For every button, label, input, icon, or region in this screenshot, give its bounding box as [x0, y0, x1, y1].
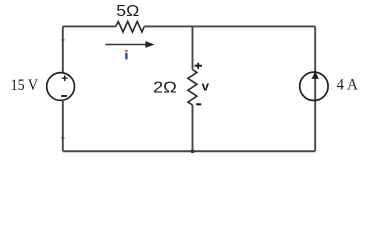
wire left vertical lower segment — [62, 100, 64, 151]
svg-text:v: v — [202, 78, 210, 93]
wire right vertical — [314, 26, 316, 151]
polarity plus of v — [195, 63, 202, 69]
polarity minus of v — [196, 103, 201, 105]
resistor R1 5ohm zigzag — [116, 22, 144, 33]
wire middle vertical lower segment — [192, 105, 194, 151]
junction dot bottom middle — [191, 149, 195, 153]
current arrow i — [105, 41, 154, 48]
svg-text:2Ω: 2Ω — [153, 80, 177, 97]
wire top-right horizontal segment — [144, 25, 315, 27]
wire left vertical upper segment — [62, 26, 64, 73]
wire top-left horizontal segment — [63, 25, 116, 27]
current source I1 — [300, 72, 328, 101]
junction tick upper left wire — [61, 39, 64, 41]
label i — [125, 50, 127, 59]
resistor R2 2ohm zigzag — [188, 70, 197, 106]
wire bottom horizontal — [63, 150, 315, 152]
junction tick lower left wire — [61, 137, 64, 139]
svg-text:15 V: 15 V — [11, 77, 39, 94]
svg-text:5Ω: 5Ω — [116, 3, 139, 20]
voltage source V1 — [47, 73, 75, 101]
svg-text:4 A: 4 A — [337, 77, 359, 94]
wire middle vertical upper segment — [192, 26, 194, 69]
